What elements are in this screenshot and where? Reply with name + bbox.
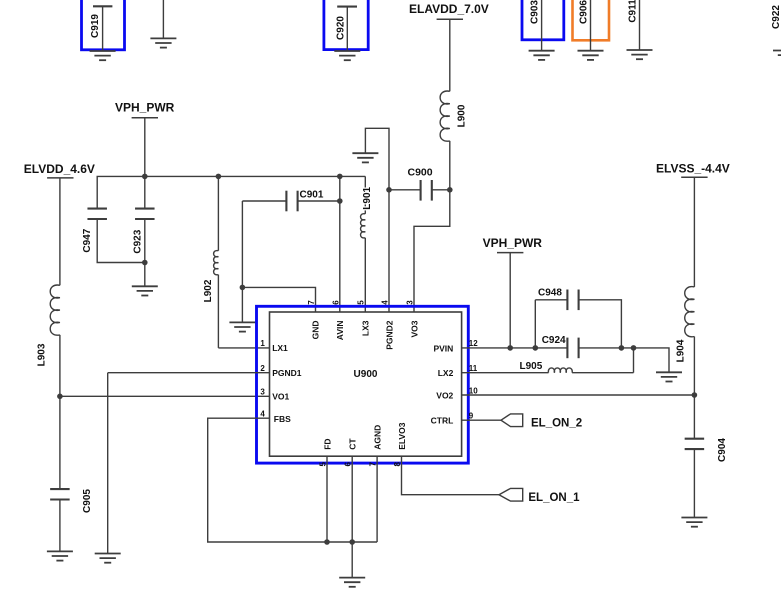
svg-text:VO3: VO3	[409, 320, 419, 337]
inductor L900	[440, 91, 467, 141]
ground under C904	[681, 518, 707, 527]
power net ELVDD_4.6V	[24, 162, 95, 285]
capacitor C900	[389, 166, 450, 200]
junction C901 x AVIN wire	[337, 198, 343, 204]
wire C923 bottom to ground	[144, 263, 146, 287]
svg-text:L901: L901	[362, 186, 373, 209]
junction VO2 x L904/C904	[692, 392, 698, 398]
capacitor C923	[132, 176, 154, 262]
svg-text:FD: FD	[322, 438, 332, 449]
ground (standalone, top)	[162, 0, 164, 38]
wire VO1 node down to C905	[59, 396, 61, 489]
svg-text:VPH_PWR: VPH_PWR	[115, 101, 175, 115]
svg-text:4: 4	[260, 410, 265, 419]
capacitor C903 (in blue highlight box, cut off at top)	[522, 0, 564, 51]
svg-text:C911: C911	[627, 0, 638, 23]
svg-text:2: 2	[260, 364, 265, 373]
svg-text:PVIN: PVIN	[433, 343, 453, 353]
wire L904 to VO2 node	[693, 337, 695, 396]
svg-text:AVIN: AVIN	[335, 321, 345, 341]
svg-text:PGND1: PGND1	[272, 368, 302, 378]
capacitor C920 (in blue highlight box, cut off at top)	[324, 0, 368, 51]
wire L900 to C900 node	[449, 141, 451, 190]
svg-text:3: 3	[260, 388, 265, 397]
capacitor C911 (cut off at top)	[627, 0, 639, 50]
ground under CT	[339, 578, 365, 587]
svg-text:LX3: LX3	[360, 320, 370, 336]
wire PGND2 (pin 14) with ground spur	[365, 128, 389, 312]
capacitor C947	[82, 209, 145, 263]
svg-text:L900: L900	[457, 104, 468, 127]
capacitor C901	[242, 189, 323, 287]
svg-text:C947: C947	[82, 228, 93, 252]
wire VPH rail (C947 top to L901)	[97, 176, 366, 208]
wire FD (pin 5)	[326, 456, 328, 542]
wire GND-loop to pin 17	[242, 287, 315, 312]
svg-text:4: 4	[381, 300, 390, 305]
wire CT (pin 6) to ground	[351, 456, 353, 577]
ground under C919	[90, 51, 116, 60]
inductor L903	[36, 285, 60, 366]
wire VO1 row (pin 3)	[60, 395, 270, 397]
capacitor C922 (cut off at right edge)	[771, 5, 781, 29]
svg-text:C901: C901	[300, 189, 324, 200]
wire GND-loop down to ground	[241, 287, 243, 322]
wire AGND (pin 7)	[376, 456, 378, 542]
svg-text:C904: C904	[717, 438, 728, 462]
svg-text:6: 6	[344, 462, 353, 467]
ground right of C924	[656, 372, 682, 381]
ground under C920	[334, 51, 360, 60]
junction C948 right leg	[619, 345, 625, 351]
junction PVIN x VPH stem	[507, 345, 513, 351]
node VO1 junction on ELVDD branch	[57, 394, 63, 400]
svg-text:PGND2: PGND2	[384, 320, 394, 350]
svg-text:C903: C903	[529, 0, 540, 24]
svg-text:11: 11	[469, 364, 478, 373]
svg-text:8: 8	[393, 462, 402, 467]
svg-text:FBS: FBS	[274, 414, 291, 424]
wire VO2 row (pin 10)	[462, 394, 695, 396]
power net VPH_PWR (left)	[115, 101, 175, 177]
wire PVIN row (pin 12)	[462, 347, 568, 349]
junction rail x L902	[216, 174, 222, 180]
svg-text:L903: L903	[36, 343, 47, 366]
junction C900 right x ELAVDD branch	[447, 187, 453, 193]
ground near PGND2 spur	[352, 153, 378, 162]
svg-text:ELVDD_4.6V: ELVDD_4.6V	[24, 162, 95, 176]
svg-text:C948: C948	[538, 288, 562, 299]
junction rail x VPH_PWR stem	[142, 174, 148, 180]
junction CT x bus	[349, 539, 355, 545]
junction FD x bus	[324, 539, 330, 545]
svg-text:5: 5	[357, 300, 366, 305]
off-page connector EL_ON_2	[501, 414, 582, 429]
svg-text:L902: L902	[203, 279, 214, 302]
inductor L901	[361, 176, 374, 312]
ground under C923	[132, 286, 158, 295]
junction C947/C923 bottom node	[142, 260, 148, 266]
svg-text:5: 5	[319, 462, 328, 467]
svg-text:C919: C919	[90, 14, 101, 38]
junction rail x AVIN wire	[337, 174, 343, 180]
wire FBS loop (pin 4) to AGND bus	[208, 418, 377, 542]
wire C924 right to ground corner	[579, 348, 669, 372]
svg-text:C900: C900	[408, 166, 433, 178]
svg-text:ELVSS_-4.4V: ELVSS_-4.4V	[656, 162, 730, 176]
inductor L904	[676, 287, 695, 363]
svg-text:1: 1	[260, 339, 265, 348]
capacitor C906 (in orange highlight box, cut off at top)	[573, 0, 610, 51]
svg-text:VPH_PWR: VPH_PWR	[483, 236, 543, 250]
wire CTRL (pin 9) to EL_ON_2	[462, 419, 501, 421]
svg-text:C923: C923	[132, 229, 143, 253]
junction L905 riser	[631, 345, 637, 351]
svg-text:3: 3	[406, 300, 415, 305]
wire C901 right plate to AVIN node	[298, 200, 340, 202]
capacitor C905	[50, 489, 93, 552]
svg-text:7: 7	[369, 462, 378, 467]
junction PVIN x C948 left leg	[533, 345, 539, 351]
svg-text:C906: C906	[578, 0, 589, 24]
wire PGND1 (pin 2) with ground drop	[108, 373, 270, 554]
svg-text:CT: CT	[348, 438, 358, 450]
power net ELAVDD_7.0V	[409, 2, 489, 91]
wire L902 to pin1 LX1	[218, 347, 269, 349]
svg-text:VO2: VO2	[436, 390, 453, 400]
ground under C922 (partially visible)	[773, 51, 781, 60]
svg-text:EL_ON_1: EL_ON_1	[528, 492, 580, 504]
wire ELAVDD branch to pin 13 VO3	[414, 190, 450, 312]
inductor L902	[203, 176, 219, 348]
svg-text:L904: L904	[676, 339, 687, 362]
junction C900 left x PGND2 wire	[386, 187, 392, 193]
svg-text:6: 6	[331, 300, 340, 305]
svg-text:C924: C924	[542, 335, 566, 346]
capacitor C948 (parallel branch)	[535, 288, 621, 348]
svg-text:7: 7	[307, 300, 316, 305]
svg-text:GND: GND	[311, 321, 321, 340]
svg-text:9: 9	[469, 412, 474, 421]
svg-text:C922: C922	[771, 5, 781, 29]
op-amp U900 (EL power IC, blue highlight box)	[257, 306, 469, 463]
svg-text:VO1: VO1	[272, 392, 289, 402]
svg-text:12: 12	[469, 339, 478, 348]
wire AVIN (pin 16)	[339, 176, 341, 312]
ground under C905	[47, 551, 73, 560]
svg-text:C905: C905	[82, 489, 93, 513]
ground under PGND1 drop	[95, 554, 121, 563]
power net VPH_PWR (right)	[483, 236, 543, 348]
svg-text:L905: L905	[520, 361, 543, 372]
svg-text:AGND: AGND	[373, 425, 383, 450]
svg-text:ELAVDD_7.0V: ELAVDD_7.0V	[409, 2, 489, 16]
ground under C903	[529, 51, 555, 60]
ground at GND loop	[229, 322, 255, 331]
power net ELVSS_-4.4V	[656, 162, 730, 287]
svg-text:CTRL: CTRL	[431, 415, 454, 425]
ground under C906	[578, 51, 604, 60]
wire L903 to VO1 node	[59, 335, 61, 396]
svg-text:LX2: LX2	[438, 368, 454, 378]
wire ELVO3 (pin 8) to EL_ON_1	[402, 456, 500, 495]
junction GND loop node	[240, 285, 246, 291]
capacitor C919 (in blue highlight box, cut off at top)	[82, 0, 125, 51]
off-page connector EL_ON_1	[499, 488, 580, 503]
svg-text:EL_ON_2: EL_ON_2	[531, 417, 582, 429]
svg-text:ELVO3: ELVO3	[397, 422, 407, 450]
svg-text:U900: U900	[354, 369, 378, 380]
capacitor C904	[685, 395, 728, 518]
svg-text:C920: C920	[335, 16, 346, 40]
svg-text:LX1: LX1	[272, 343, 288, 353]
capacitor C924	[542, 335, 579, 358]
ground under C911	[627, 50, 653, 59]
inductor L905 (on LX2 row pin 11)	[462, 348, 634, 373]
svg-text:10: 10	[469, 386, 478, 395]
